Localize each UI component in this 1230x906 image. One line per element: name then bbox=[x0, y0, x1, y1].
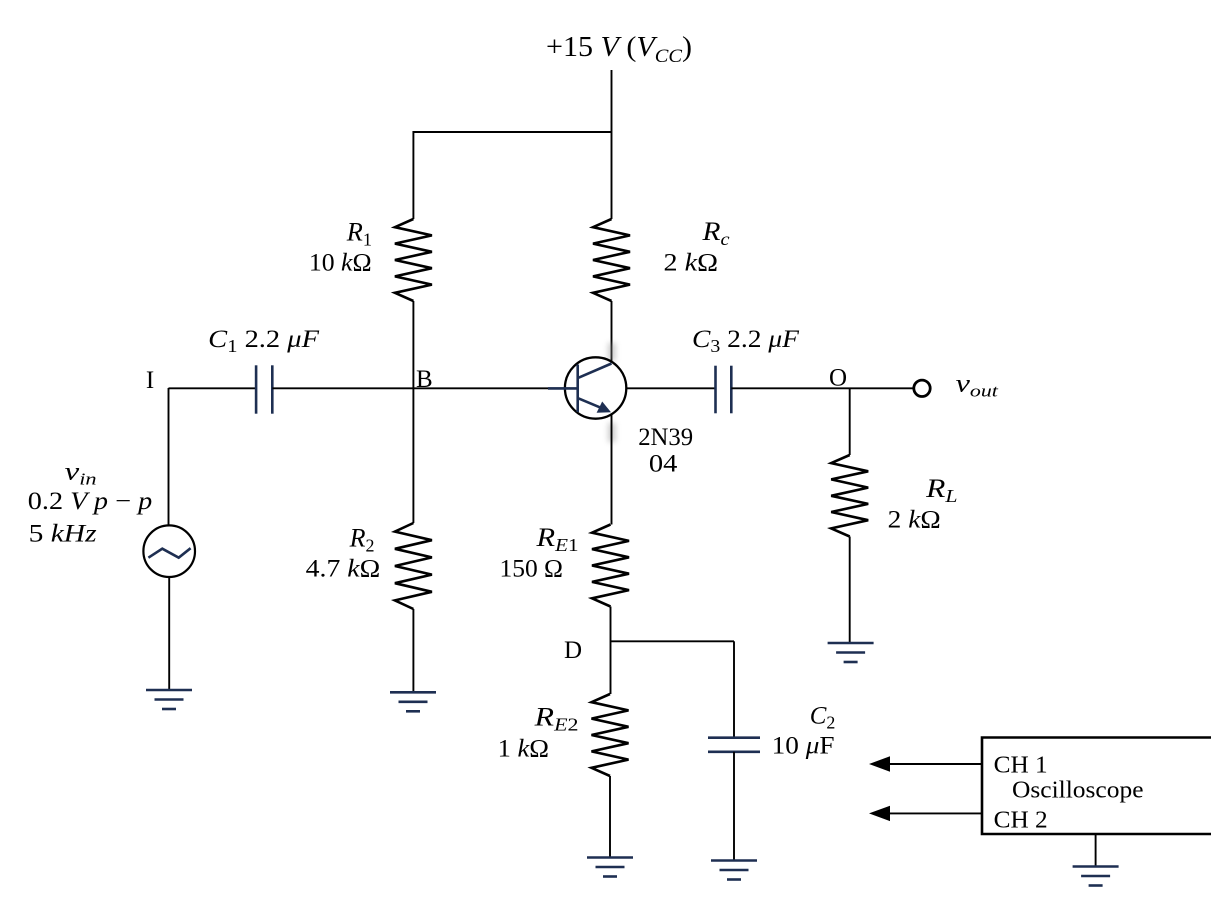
resistor R2 bbox=[395, 523, 432, 609]
svg-text:R1: R1 bbox=[346, 218, 372, 250]
svg-text:D: D bbox=[564, 637, 582, 664]
wire: R1 bottom to node B bbox=[412, 301, 414, 388]
resistor RE2 bbox=[592, 694, 629, 776]
svg-text:CH 1: CH 1 bbox=[994, 753, 1048, 779]
wire shadow above transistor bbox=[608, 343, 616, 361]
svg-text:Oscilloscope: Oscilloscope bbox=[1012, 778, 1144, 804]
wire: node I down to source bbox=[168, 388, 170, 526]
wire: R2 bottom to ground bbox=[412, 609, 414, 693]
transistor collector stroke bbox=[578, 364, 611, 378]
svg-text:CH 2: CH 2 bbox=[994, 808, 1048, 834]
svg-text:RE1: RE1 bbox=[535, 523, 578, 555]
wire: RE2 bottom to ground bbox=[609, 776, 611, 858]
svg-text:C1 2.2 μF: C1 2.2 μF bbox=[208, 326, 320, 356]
transistor base lead bbox=[548, 387, 578, 390]
svg-text:vin: vin bbox=[65, 459, 97, 489]
CH1 probe arrow bbox=[888, 763, 982, 765]
resistor Rc bbox=[593, 219, 630, 301]
output terminal circle bbox=[914, 380, 930, 396]
resistor RE1 bbox=[592, 525, 629, 607]
wire: node D to C2 branch bbox=[611, 640, 735, 642]
transistor emitter stroke with arrow bbox=[578, 398, 601, 408]
svg-text:+15 V (VCC): +15 V (VCC) bbox=[546, 32, 692, 67]
svg-text:2N39: 2N39 bbox=[638, 424, 693, 451]
wire: C1 right plate to transistor base bbox=[272, 387, 570, 389]
wire: scope ground stem bbox=[1095, 834, 1097, 867]
svg-text:0.2 V p − p: 0.2 V p − p bbox=[28, 488, 152, 515]
wire shadow below transistor bbox=[608, 423, 616, 442]
svg-text:B: B bbox=[416, 366, 433, 393]
wire: down to C2 top plate bbox=[733, 641, 735, 737]
svg-text:5 kHz: 5 kHz bbox=[29, 521, 97, 548]
wire: node I to C1 left plate bbox=[169, 387, 257, 389]
ground (source) bbox=[146, 689, 192, 692]
resistor R1 bbox=[395, 219, 432, 301]
svg-text:R2: R2 bbox=[349, 524, 375, 556]
svg-text:C2: C2 bbox=[810, 703, 836, 733]
wire: C3 to output terminal bbox=[731, 387, 913, 389]
svg-text:2 kΩ: 2 kΩ bbox=[888, 507, 941, 534]
svg-text:RE2: RE2 bbox=[533, 703, 578, 735]
svg-text:vout: vout bbox=[956, 371, 1000, 401]
ground (R2) bbox=[390, 691, 436, 694]
transistor base bar bbox=[576, 365, 579, 413]
ground (RL) bbox=[828, 642, 874, 645]
wire: down from rail to R1 bbox=[412, 131, 414, 219]
svg-text:1 kΩ: 1 kΩ bbox=[498, 736, 549, 763]
ground (RE2) bbox=[587, 856, 633, 859]
source Vin circle bbox=[143, 525, 195, 577]
svg-text:10 kΩ: 10 kΩ bbox=[309, 249, 372, 276]
wire: transistor emitter down to RE1 bbox=[611, 415, 613, 525]
wire: source bottom to ground bbox=[168, 577, 170, 691]
wire: Rc bottom to transistor collector bbox=[611, 301, 613, 362]
wire: RL bottom to ground bbox=[849, 537, 851, 645]
svg-text:RL: RL bbox=[925, 474, 958, 506]
wire: node O down to RL bbox=[849, 388, 851, 455]
svg-text:04: 04 bbox=[649, 451, 678, 478]
source waveform zigzag bbox=[148, 548, 190, 558]
wire: C2 bottom plate to ground bbox=[733, 752, 735, 861]
oscilloscope box (open right side) bbox=[982, 738, 1211, 835]
ground (C2) bbox=[711, 859, 757, 862]
wire: RE1 bottom through node D to RE2 bbox=[610, 607, 612, 695]
svg-text:150 Ω: 150 Ω bbox=[500, 556, 564, 583]
capacitor C3 bbox=[714, 366, 717, 414]
svg-text:10 μF: 10 μF bbox=[772, 733, 835, 760]
wire: Vcc stem from +15V label down to rail junction bbox=[611, 70, 613, 219]
svg-text:C3 2.2 μF: C3 2.2 μF bbox=[692, 326, 800, 356]
svg-text:Rc: Rc bbox=[701, 217, 729, 249]
svg-text:2 kΩ: 2 kΩ bbox=[664, 250, 719, 277]
capacitor C1 bbox=[255, 365, 258, 413]
svg-text:O: O bbox=[829, 365, 847, 392]
capacitor C2 bbox=[708, 736, 760, 739]
wire: node B down to R2 bbox=[412, 388, 414, 523]
svg-text:I: I bbox=[146, 367, 154, 394]
transistor Q1 circle bbox=[565, 357, 626, 418]
wire: transistor collector side to C3 bbox=[626, 387, 715, 389]
ground (oscilloscope) bbox=[1073, 865, 1119, 868]
svg-text:4.7 kΩ: 4.7 kΩ bbox=[306, 555, 381, 582]
resistor RL bbox=[831, 455, 868, 537]
CH2 probe arrow bbox=[888, 812, 982, 814]
wire: top rail from R1 branch to Vcc stem bbox=[413, 131, 611, 133]
